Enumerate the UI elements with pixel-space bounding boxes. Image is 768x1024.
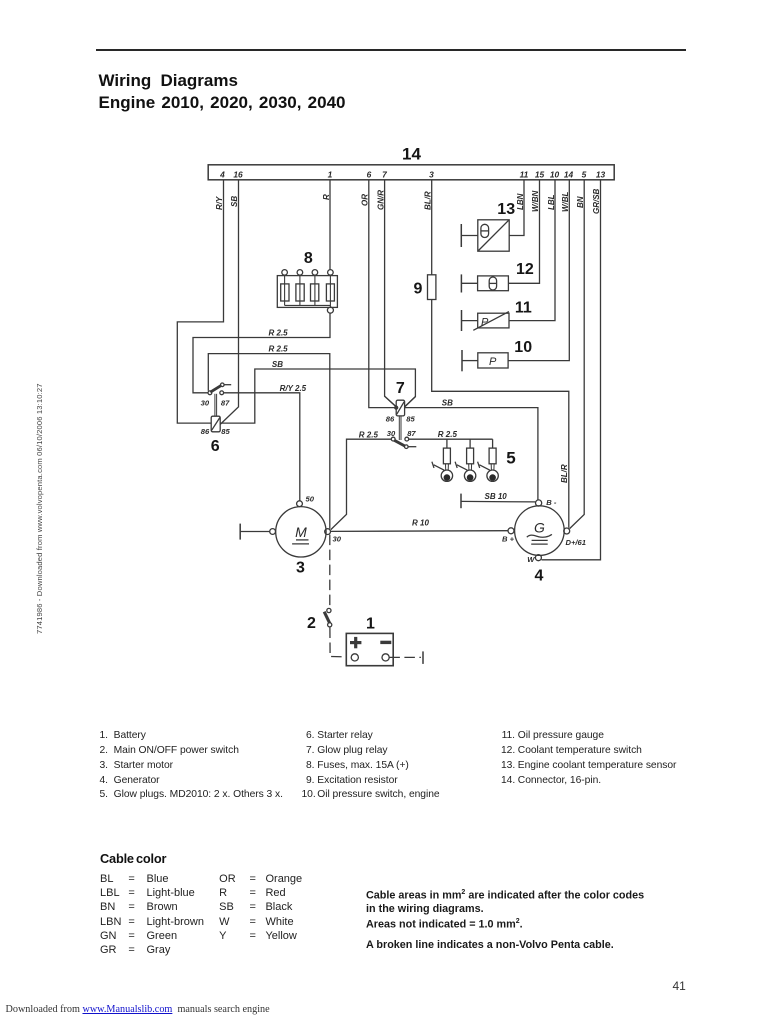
cable color table: [100, 872, 302, 957]
svg-text:SB 10: SB 10: [485, 492, 508, 501]
glow plug 5b: [455, 439, 476, 481]
svg-text:15: 15: [535, 169, 545, 179]
glow plug 5a: [432, 439, 453, 481]
svg-text:14: 14: [402, 145, 421, 164]
svg-text:1: 1: [366, 616, 375, 633]
svg-text:12: 12: [516, 261, 534, 278]
svg-text:11: 11: [520, 169, 529, 179]
svg-text:R 2.5: R 2.5: [269, 345, 289, 354]
oil pressure gauge sender 11: [462, 310, 510, 331]
ground lead and chassis bar at starter motor: [240, 524, 270, 540]
svg-text:5: 5: [506, 449, 515, 468]
connector 14 (16-pin): [208, 165, 614, 180]
bottom bar: [6, 1004, 270, 1015]
svg-text:2: 2: [307, 615, 316, 632]
wire SB : relay 7 terminal 85 to generator B-: [405, 398, 538, 500]
svg-text:M: M: [295, 524, 307, 540]
svg-text:6: 6: [211, 438, 220, 455]
svg-text:10: 10: [550, 169, 560, 179]
svg-text:4: 4: [219, 169, 225, 179]
svg-text:BN: BN: [576, 196, 585, 208]
wire R/Y 2.5 : pin 4 to relay 6 terminal 86: [177, 180, 224, 423]
svg-text:85: 85: [221, 427, 230, 436]
coolant temperature switch 12: [461, 274, 508, 292]
svg-text:7: 7: [396, 380, 405, 397]
wire SB : relay 6 terminal 85 to relay 7 terminal 85: [220, 360, 415, 423]
svg-text:86: 86: [201, 427, 210, 436]
wire LBL : pin 10 to gauge sender 11: [509, 180, 556, 321]
svg-text:BL/R: BL/R: [423, 191, 432, 210]
svg-text:5: 5: [582, 169, 587, 179]
wire R/Y 2.5 : relay 6 terminal 87 to starter motor terminal 50: [224, 384, 307, 501]
svg-text:9: 9: [414, 280, 423, 297]
svg-text:P: P: [489, 356, 497, 368]
svg-text:R 10: R 10: [412, 519, 429, 528]
top rule: [96, 49, 686, 51]
wire R 2.5 : relay 6 terminal 30 to starter motor terminal 30: [208, 345, 329, 529]
legend column 3: [501, 729, 676, 788]
relay 6 : main relay (switch, coil, terminals 30/87/86/85): [201, 383, 232, 436]
svg-text:P: P: [481, 316, 489, 328]
svg-text:10: 10: [514, 339, 532, 356]
relay 7 : glow plug relay (coil with terminals 86/85, switch 30/87): [385, 396, 417, 448]
svg-text:R/Y: R/Y: [215, 196, 224, 210]
svg-text:13: 13: [596, 169, 606, 179]
svg-text:85: 85: [406, 415, 415, 424]
glow plug 5c: [478, 439, 499, 481]
svg-text:G: G: [534, 520, 545, 536]
page number: [673, 979, 686, 993]
svg-text:1: 1: [328, 169, 333, 179]
svg-text:W/BL: W/BL: [561, 191, 570, 212]
svg-text:7: 7: [382, 169, 387, 179]
engine coolant temperature sensor 13: [461, 220, 509, 251]
svg-text:8: 8: [304, 250, 313, 267]
oil pressure switch 10: [462, 350, 508, 371]
svg-text:4: 4: [535, 567, 544, 584]
generator 4: [502, 498, 586, 564]
svg-text:3: 3: [429, 169, 434, 179]
svg-text:14: 14: [564, 169, 574, 179]
svg-text:OR: OR: [360, 194, 369, 206]
wire GN/R : pin 7 to relay 7 terminal 86: [376, 180, 396, 407]
svg-text:30: 30: [333, 534, 342, 543]
svg-text:LBL: LBL: [547, 194, 556, 210]
wire LBN : pin 11 to sensor 13: [509, 180, 525, 236]
svg-text:3: 3: [296, 559, 305, 576]
svg-text:GN/R: GN/R: [376, 190, 385, 210]
right bold notes: [366, 889, 644, 902]
svg-text:D+/61: D+/61: [566, 538, 586, 547]
svg-text:B +: B +: [502, 535, 515, 544]
wire R : pin 1 to fuse box 8: [322, 180, 331, 270]
svg-text:GR/SB: GR/SB: [592, 188, 601, 214]
svg-text:BL/R: BL/R: [560, 464, 569, 483]
title: [99, 71, 238, 91]
wire R 2.5 : relay 7 terminal 87 to glow plugs 5: [409, 430, 493, 439]
svg-text:30: 30: [387, 429, 396, 438]
wire R 2.5 : relay 7 terminal 30 to starter motor terminal 30: [331, 430, 392, 529]
svg-text:B -: B -: [546, 498, 557, 507]
svg-text:R 2.5: R 2.5: [269, 329, 289, 338]
svg-text:86: 86: [386, 415, 395, 424]
broken line : starter motor terminal 30 to main switch 2: [329, 535, 331, 609]
wire W/BN : pin 15 to switch 12: [508, 180, 540, 283]
legend column 2: [302, 729, 440, 803]
wire W/BL : pin 14 to switch 10: [508, 180, 570, 361]
fuse box 8 with 4 fuses: [277, 270, 337, 314]
left sidebar rotated text: [35, 383, 44, 634]
broken line : battery negative to chassis: [389, 651, 423, 664]
wire GR/SB : pin 13 to generator W: [542, 180, 602, 560]
svg-text:R: R: [322, 194, 331, 200]
svg-text:87: 87: [221, 399, 230, 408]
svg-text:13: 13: [497, 201, 515, 218]
svg-text:87: 87: [407, 429, 416, 438]
svg-text:R/Y 2.5: R/Y 2.5: [280, 384, 307, 393]
wire BN : pin 5 to generator D+/61: [570, 180, 585, 529]
svg-text:LBN: LBN: [516, 193, 525, 210]
cable color heading: [100, 851, 166, 866]
wire BL/R : pin 3 through resistor 9 to generator D+/61: [423, 180, 569, 528]
svg-text:11: 11: [515, 299, 532, 316]
legend column 1: [99, 729, 283, 803]
svg-text:SB: SB: [442, 398, 453, 407]
svg-text:30: 30: [201, 399, 210, 408]
battery 1: [346, 633, 393, 665]
svg-text:W/BN: W/BN: [531, 190, 540, 212]
svg-text:6: 6: [367, 169, 372, 179]
svg-text:W: W: [527, 555, 535, 564]
svg-text:SB: SB: [230, 196, 239, 207]
svg-text:16: 16: [233, 169, 243, 179]
svg-text:SB: SB: [272, 360, 283, 369]
svg-text:R 2.5: R 2.5: [438, 430, 458, 439]
resistor 9 : excitation resistor: [428, 275, 436, 300]
wire SB 10 : chassis to generator B-: [461, 492, 535, 508]
starter motor 3: [270, 495, 342, 557]
wire SB : pin 16 to relay 6 terminal 85: [220, 180, 239, 425]
broken line : switch 2 to battery positive: [330, 628, 347, 657]
svg-text:R 2.5: R 2.5: [359, 430, 379, 439]
wire R 2.5 : fuse box 8 to relay 6 terminal 30: [193, 313, 330, 393]
main ON/OFF power switch 2: [324, 608, 332, 627]
wire R 10 : starter motor terminal 30 to generator B+: [331, 519, 508, 532]
wire OR : pin 6 to relay 7 terminal 86: [360, 180, 397, 409]
svg-text:50: 50: [306, 495, 315, 504]
